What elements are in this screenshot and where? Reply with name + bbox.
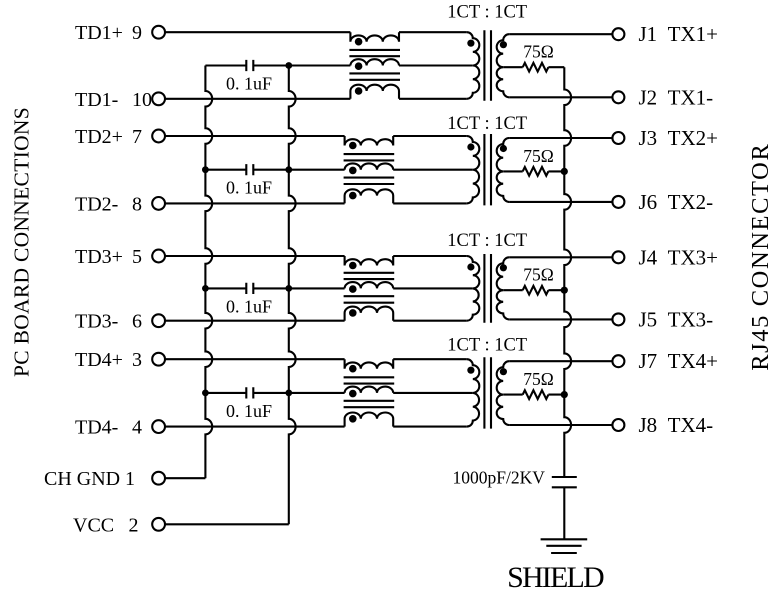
choke L1 core lines [349,50,400,80]
pin 10 terminal TD1- [152,92,165,105]
phase dot choke L2 winding c [349,192,357,200]
svg-text:6: 6 [132,311,142,333]
capacitor C3 0.1uF plates [246,283,253,294]
choke L3 core lines [344,273,395,303]
wire choke L4 to transformer T4 primary centre tap [393,392,473,394]
svg-text:0. 1uF: 0. 1uF [226,178,272,198]
resistor R1 75 ohm zigzag [523,63,549,72]
wire TD3+ to choke L3 [165,255,344,257]
wire CH GND pin to bus [165,477,205,479]
transformer T3 core [484,254,491,323]
svg-text:J6 TX2-: J6 TX2- [639,190,714,214]
wire cap C1 right plate to VCC bus / choke centre winding [253,64,350,66]
pin 9 terminal TD1+ [152,26,165,39]
wire resistor R3 to shield bus [548,289,564,291]
choke L2 core lines [344,154,395,184]
phase dot choke L1 winding c [355,87,363,95]
resistor R4 75 ohm zigzag [523,390,549,399]
svg-text:75Ω: 75Ω [523,146,554,166]
wire C5 to shield ground [563,487,565,538]
wire TD2+ to choke L2 [165,135,344,137]
transformer T4 primary winding [467,359,480,426]
common-mode choke L3 winding c (bottom) [345,307,394,321]
svg-text:J3 TX2+: J3 TX2+ [639,126,719,150]
wire TD4- to choke L4 [165,426,344,428]
svg-text:J7 TX4+: J7 TX4+ [639,349,719,373]
junction CH GND bus / cap [202,285,209,292]
pin J6 terminal TX2- [612,196,624,208]
wire T4 secondary centre tap to resistor R4 [503,394,523,396]
transformer T4 secondary winding [497,361,510,425]
pin J4 terminal TX3+ [612,251,624,263]
svg-text:1000pF/2KV: 1000pF/2KV [453,468,546,488]
wire resistor R4 to shield bus [548,394,564,396]
transformer T4 core [484,357,491,428]
wire choke L3 to transformer T3 primary bottom [393,320,467,322]
shield ground symbol [541,539,588,553]
transformer T2 secondary winding [497,138,510,202]
phase dot transformer T1 primary [467,40,474,47]
phase dot transformer T3 primary [467,263,474,270]
phase dot choke L2 winding b [349,167,357,175]
capacitor C5 1000pF/2KV plates [552,477,577,487]
wire T2 secondary centre tap to resistor R2 [503,170,523,172]
wire TD1+ to choke L1 [165,31,350,33]
wire resistor R1 to shield bus [548,66,564,68]
wire choke L1 to transformer T1 primary centre tap [399,64,473,66]
transformer T2 primary winding [467,136,480,203]
pin J3 terminal TX2+ [612,132,624,144]
phase dot transformer T2 primary [467,143,474,150]
wire cap C2 right plate to VCC bus / choke centre winding [253,169,344,171]
svg-text:3: 3 [132,349,142,371]
common-mode choke L3 winding b (centre) [345,282,394,288]
wire TD4+ to choke L4 [165,358,344,360]
transformer T3 primary winding [467,256,480,321]
svg-text:VCC: VCC [73,514,114,536]
phase dot choke L1 winding b [355,62,363,70]
common-mode choke L4 winding a (top) [345,359,394,369]
phase dot choke L4 winding c [349,415,357,423]
wire T2 secondary bottom to pin J6 [509,201,612,203]
pin J1 terminal TX1+ [612,28,624,40]
resistor R3 75 ohm zigzag [523,286,549,295]
choke L4 core lines [344,377,395,407]
svg-text:PC BOARD CONNECTIONS: PC BOARD CONNECTIONS [9,107,33,377]
svg-text:TD1-: TD1- [75,89,118,111]
wire TD2- to choke L2 [165,202,344,204]
CH GND bus (left vertical) with hops over TD wires [205,66,212,479]
junction VCC bus / cap [285,166,292,173]
wire choke L3 to transformer T3 primary centre tap [393,287,473,289]
wire choke L2 to transformer T2 primary bottom [393,202,467,204]
pin 7 terminal TD2+ [152,130,165,143]
junction VCC bus / cap C1 [285,62,292,69]
common-mode choke L4 winding c (bottom) [345,413,394,427]
phase dot transformer T4 secondary [500,368,507,375]
pin J2 terminal TX1- [612,91,624,103]
wire VCC pin to bus [165,523,289,525]
capacitor C2 0.1uF plates [246,164,253,175]
svg-text:TD2+: TD2+ [75,126,123,148]
svg-text:8: 8 [132,193,142,215]
junction resistor R4 / shield bus [561,391,568,398]
svg-text:9: 9 [132,22,142,44]
junction resistor R3 / shield bus [561,287,568,294]
phase dot choke L3 winding a [349,262,357,270]
wire T1 secondary top to pin J1 [509,33,612,35]
wire T4 secondary bottom to pin J8 [509,424,612,426]
common-mode choke L2 winding b (centre) [345,163,394,169]
wire T1 secondary centre tap to resistor R1 [503,66,523,68]
transformer T3 secondary winding [497,257,510,319]
pin 8 terminal TD2- [152,197,165,210]
svg-text:J5 TX3-: J5 TX3- [639,307,714,331]
wire choke L3 to transformer T3 primary top [393,255,467,257]
transformer T1 secondary winding [497,34,510,97]
phase dot choke L3 winding b [349,285,357,293]
svg-text:1CT : 1CT: 1CT : 1CT [447,231,527,251]
phase dot choke L2 winding a [349,142,357,150]
svg-text:5: 5 [132,246,142,268]
wire TD1- to choke L1 [165,98,350,100]
svg-text:J4 TX3+: J4 TX3+ [639,245,719,269]
pin J7 terminal TX4+ [612,355,624,367]
svg-text:7: 7 [132,126,142,148]
wire T3 secondary bottom to pin J5 [509,318,612,320]
pin 4 terminal TD4- [152,420,165,433]
transformer T2 core [484,134,491,205]
common-mode choke L2 winding c (bottom) [345,189,394,203]
wire T3 secondary centre tap to resistor R3 [503,289,523,291]
wire T3 secondary top to pin J4 [509,256,612,258]
wire choke L1 to transformer T1 primary top [399,31,467,33]
pin J5 terminal TX3- [612,313,624,325]
pin 2 terminal VCC [152,518,165,531]
svg-text:2: 2 [129,514,139,536]
common-mode choke L2 winding a (top) [345,136,394,146]
pin 6 terminal TD3- [152,314,165,327]
svg-text:TD4+: TD4+ [75,349,123,371]
wire cap C3 left plate to CH GND bus [205,287,246,289]
wire T4 secondary top to pin J7 [509,360,612,362]
wire choke L4 to transformer T4 primary top [393,358,467,360]
pin 5 terminal TD3+ [152,250,165,263]
common-mode choke L3 winding a (top) [345,256,394,266]
svg-text:10: 10 [132,89,152,111]
wire cap C3 right plate to VCC bus / choke centre winding [253,287,344,289]
wire resistor R2 to shield bus [548,170,564,172]
svg-text:TD3+: TD3+ [75,246,123,268]
wire cap C2 left plate to CH GND bus [205,169,246,171]
svg-text:75Ω: 75Ω [523,42,554,62]
pin 3 terminal TD4+ [152,353,165,366]
wire T2 secondary top to pin J3 [509,137,612,139]
transformer T1 core [484,30,491,101]
phase dot choke L1 winding a [355,38,363,46]
svg-text:4: 4 [132,417,142,439]
svg-text:SHIELD: SHIELD [507,561,604,594]
wire TD3- to choke L3 [165,320,344,322]
phase dot transformer T3 secondary [500,264,507,271]
svg-text:J1 TX1+: J1 TX1+ [639,22,719,46]
wire cap C4 right plate to VCC bus / choke centre winding [253,392,344,394]
svg-text:1CT : 1CT: 1CT : 1CT [447,3,527,23]
phase dot transformer T2 secondary [500,145,507,152]
phase dot transformer T1 secondary [500,41,507,48]
svg-text:1: 1 [125,468,135,490]
svg-text:75Ω: 75Ω [523,369,554,389]
phase dot choke L3 winding c [349,309,357,317]
svg-text:1CT : 1CT: 1CT : 1CT [447,114,527,134]
resistor R2 75 ohm zigzag [523,167,549,176]
transformer T1 primary winding [467,32,480,99]
svg-text:0. 1uF: 0. 1uF [226,296,272,316]
wire choke L4 to transformer T4 primary bottom [393,426,467,428]
phase dot transformer T4 primary [467,367,474,374]
svg-text:75Ω: 75Ω [523,265,554,285]
pin 1 terminal CH GND [152,472,165,485]
wire cap C4 left plate to CH GND bus [205,392,246,394]
svg-text:CH GND: CH GND [44,468,120,490]
junction CH GND bus / cap [202,390,209,397]
junction VCC bus / cap [285,390,292,397]
phase dot choke L4 winding b [349,390,357,398]
phase dot choke L4 winding a [349,365,357,373]
svg-text:J2 TX1-: J2 TX1- [639,85,714,109]
svg-text:0. 1uF: 0. 1uF [226,401,272,421]
wire cap C1 left plate to CH GND bus [205,64,246,66]
svg-text:1CT : 1CT: 1CT : 1CT [447,336,527,356]
junction VCC bus / cap [285,285,292,292]
wire choke L2 to transformer T2 primary centre tap [393,169,473,171]
junction CH GND bus / cap [202,166,209,173]
wire T1 secondary bottom to pin J2 [509,96,612,98]
common-mode choke L1 winding b (centre) [350,59,399,65]
svg-text:RJ45 CONNECTOR: RJ45 CONNECTOR [747,143,774,371]
common-mode choke L4 winding b (centre) [345,387,394,393]
capacitor C4 0.1uF plates [246,387,253,398]
common-mode choke L1 winding a (top) [350,32,399,42]
shield bus (vertical) with hops over secondary wires [564,67,571,477]
pin J8 terminal TX4- [612,419,624,431]
svg-text:TD2-: TD2- [75,193,118,215]
junction resistor R2 / shield bus [561,168,568,175]
wire choke L2 to transformer T2 primary top [393,135,467,137]
wire choke L1 to transformer T1 primary bottom [399,98,467,100]
svg-text:TD1+: TD1+ [75,22,123,44]
common-mode choke L1 winding c (bottom) [350,85,399,99]
svg-text:0. 1uF: 0. 1uF [226,74,272,94]
svg-text:J8 TX4-: J8 TX4- [639,413,714,437]
VCC bus (right vertical) with hops over TD wires [289,66,296,525]
capacitor C1 0.1uF plates [246,60,253,71]
svg-text:TD4-: TD4- [75,417,118,439]
svg-text:TD3-: TD3- [75,311,118,333]
